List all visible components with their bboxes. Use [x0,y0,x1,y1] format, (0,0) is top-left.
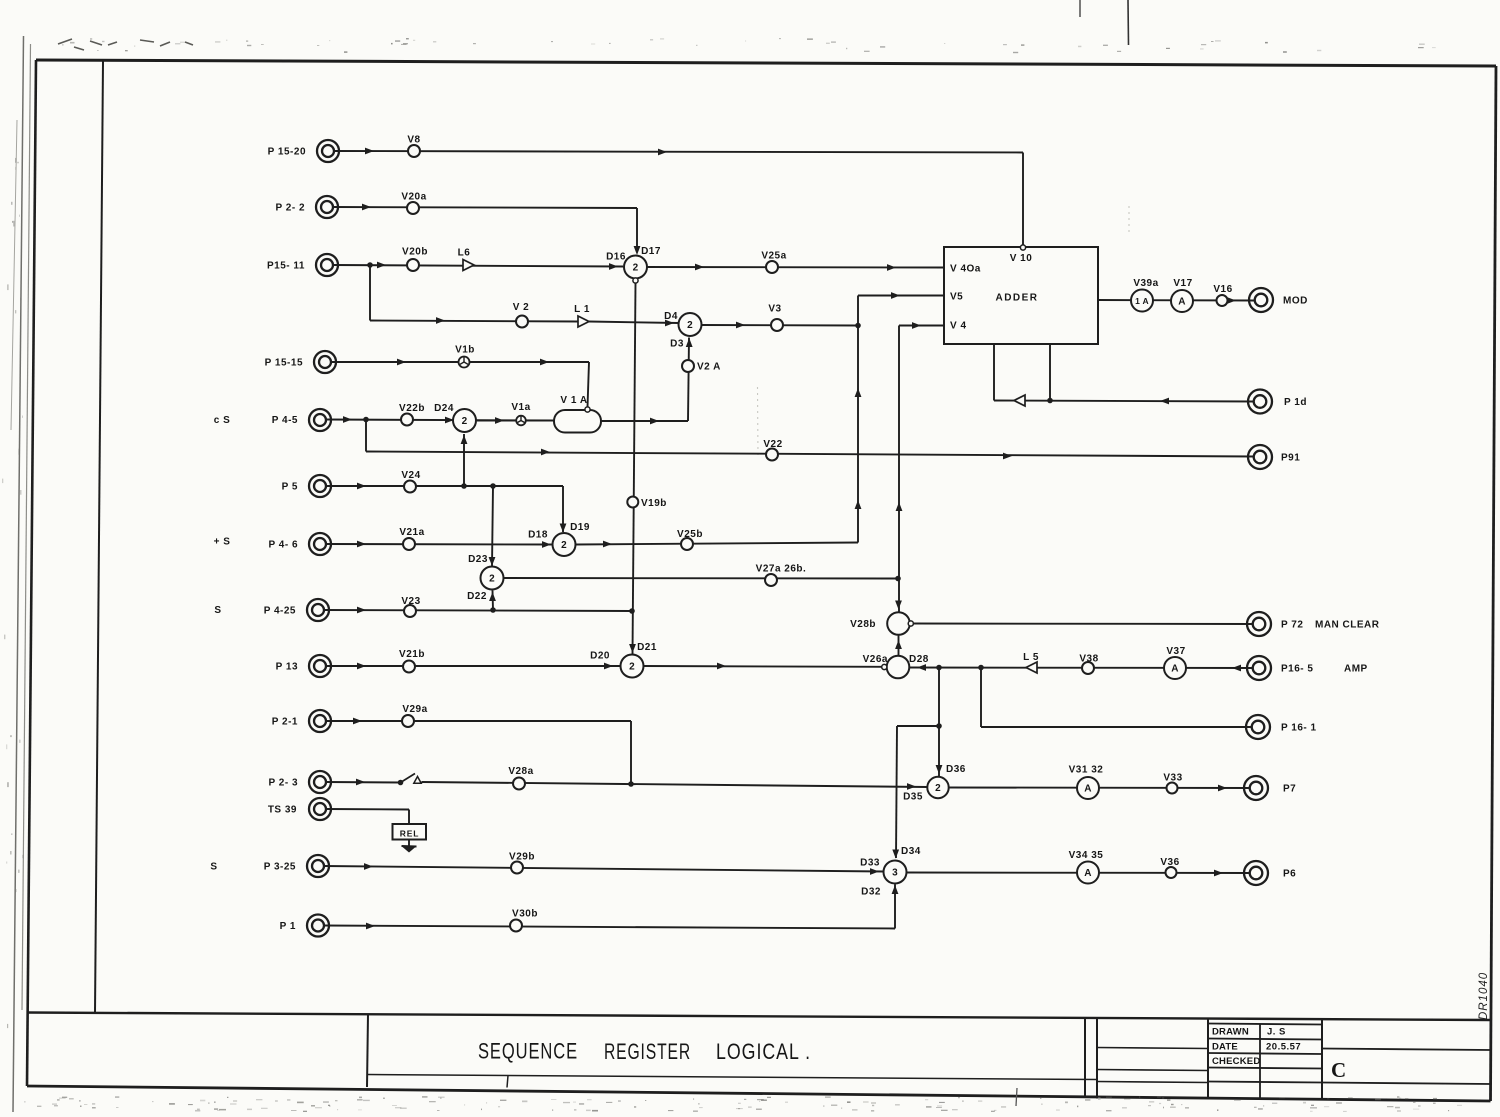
wire P16-1 row [980,668,982,728]
wire ADDER out [1098,299,1256,302]
svg-text:MAN CLEAR: MAN CLEAR [1315,620,1380,631]
arrow [855,500,862,509]
wire D16 output to ADDER [647,266,944,269]
svg-text:V21a: V21a [399,527,424,538]
arrow [343,416,352,423]
svg-text:P 5: P 5 [282,482,298,493]
valve V19b [627,497,638,508]
diode triangle [1014,395,1025,406]
valve V16 [1217,295,1228,306]
valve V2 [516,316,528,328]
svg-text:D24: D24 [434,403,454,414]
svg-text:V28b: V28b [850,619,876,630]
svg-text:D36: D36 [946,764,966,775]
svg-text:V16: V16 [1213,284,1232,295]
arrow [665,320,674,327]
wire D24 riser [463,434,465,486]
svg-text:D34: D34 [901,846,921,857]
terminal P4-5 [309,409,331,431]
arrow [1232,665,1241,672]
wire P13 row [326,665,621,667]
arrow D35 in [907,783,916,790]
wire P2-2 to D17 corner [333,207,637,208]
border inner margin line [95,62,103,1014]
svg-text:LOGICAL .: LOGICAL . [716,1039,811,1064]
arrow [357,541,366,548]
svg-text:D32: D32 [861,887,881,898]
svg-text:SEQUENCE: SEQUENCE [478,1039,578,1064]
wire P1 row [324,926,895,929]
svg-text:V34 35: V34 35 [1069,850,1104,861]
valve V25b [681,538,693,550]
wire D36 out [949,787,1251,790]
svg-text:P 15-15: P 15-15 [265,358,303,369]
wire D16 vertical [633,283,636,655]
terminal P2-2 [316,196,338,218]
wire P2-1 row [326,720,631,722]
valve V2A [682,360,694,372]
valve V22 [766,449,778,461]
wire D18 out to V5 [576,543,858,545]
svg-text:D22: D22 [467,591,487,602]
svg-text:TS 39: TS 39 [268,805,297,816]
relay REL box [393,824,427,840]
svg-text:P 4- 6: P 4- 6 [269,540,299,551]
svg-text:V2 A: V2 A [697,362,721,373]
svg-text:V 4Oa: V 4Oa [950,264,981,275]
arrow [736,322,745,329]
wire 3-circle out [907,872,1252,875]
adder D4 [679,313,702,336]
circle on V26a left [882,664,887,669]
amplifier L1 [578,316,589,327]
arrow D24 bottom [461,435,468,444]
svg-text:A: A [1084,868,1092,879]
arrow [695,264,704,271]
amplifier V31 32 [1077,777,1099,799]
scan tick marks top right [1079,0,1081,17]
adder D16 [624,256,647,279]
svg-text:DATE: DATE [1212,1042,1238,1053]
svg-text:L6: L6 [458,248,471,259]
svg-text:A: A [1171,664,1179,675]
delay V1A [554,410,601,433]
wire P15-15 to V1A [331,361,589,363]
svg-text:P16- 5: P16- 5 [1281,664,1313,675]
arrow [541,449,550,456]
junction [855,323,861,329]
ground [402,845,417,848]
svg-text:AMP: AMP [1344,664,1368,675]
terminal P15-15 [314,351,336,373]
wire TS39 to REL [326,808,409,811]
adder box [944,247,1098,344]
arrow [658,149,667,156]
amplifier V17 [1171,290,1193,312]
terminal TS39 [309,798,331,820]
wire P15-20 to V10 corner [334,151,1023,153]
svg-text:P 15-20: P 15-20 [268,147,306,158]
junction [936,665,942,671]
svg-text:D16: D16 [606,252,626,263]
wire P4-6 row [326,543,552,546]
svg-text:CHECKED: CHECKED [1212,1056,1260,1067]
circle on V28b right [908,621,913,626]
svg-text:D21: D21 [637,642,657,653]
valve V20a [407,202,419,214]
arrow [364,863,373,870]
terminal P2-1 [309,710,331,732]
svg-text:J. S: J. S [1267,1027,1286,1038]
svg-text:V31 32: V31 32 [1069,765,1104,776]
gate V26a [887,656,910,679]
svg-text:V38: V38 [1079,654,1098,665]
inhibit circle on D16 [633,278,638,283]
circle on V1A top [585,407,590,412]
arrow [357,607,366,614]
arrow D20 in [604,663,613,670]
svg-text:V 4: V 4 [950,321,967,332]
junction [367,262,373,268]
junction [490,483,496,489]
junction [936,723,942,729]
terminal P15-11 [316,254,338,276]
terminal P6 [1244,861,1268,885]
svg-text:D33: D33 [860,858,880,869]
junction [629,608,635,614]
valve V23 [404,605,416,617]
valve V22b [401,414,413,426]
svg-text:ADDER: ADDER [995,293,1038,304]
valve V21b [403,661,415,673]
svg-text:V36: V36 [1160,857,1179,868]
terminal P72 [1247,612,1271,636]
wire D24 to V1A [477,420,554,422]
svg-text:P 1: P 1 [280,921,296,932]
svg-text:D17: D17 [641,246,661,257]
arrow D34 into 3-circle [892,850,899,859]
svg-text:V 1 A: V 1 A [560,395,587,406]
arrow D23 into [489,557,496,566]
terminal P4-25 [307,599,329,621]
svg-text:V 10: V 10 [1010,253,1033,264]
amplifier V39a [1131,290,1153,312]
svg-text:P91: P91 [1281,453,1300,464]
svg-text:P7: P7 [1283,784,1296,795]
wire P15-11 to D16 [333,265,623,267]
title block grid [27,1013,1491,1021]
svg-text:D19: D19 [570,522,590,533]
svg-text:V23: V23 [401,596,420,607]
wire D36 riser [938,668,940,777]
wire P1d row [994,401,1255,402]
wire D23 out to V27a row [504,577,898,580]
arrow [603,541,612,548]
adder D24 [453,409,476,432]
terminal P1d [1248,390,1272,414]
terminal P1 [307,915,329,937]
wire D22 riser [492,591,495,611]
arrow [357,663,366,670]
wire P2-3 stub [326,781,401,784]
svg-text:L 5: L 5 [1023,652,1039,663]
svg-text:V8: V8 [407,135,420,146]
valve V29a [402,715,414,727]
svg-text:P 4-5: P 4-5 [272,415,298,426]
wire P16-5 row [910,667,1255,670]
svg-text:V20a: V20a [401,192,426,203]
gate V28b [887,612,910,635]
svg-text:P 3-25: P 3-25 [264,862,296,873]
arrow [362,204,371,211]
arrow [1214,870,1223,877]
valve V27a [765,574,777,586]
arrow D24 in [445,417,454,424]
valve V38 [1082,662,1094,674]
arrow [717,663,726,670]
arrow [353,718,362,725]
arrow [377,262,386,269]
arrow [895,640,902,649]
svg-text:A: A [1084,784,1092,795]
wire P4-25 row [324,610,632,611]
svg-text:D3: D3 [670,339,684,350]
svg-text:+ S: + S [214,537,231,548]
svg-text:P6: P6 [1283,869,1296,880]
arrow [1227,297,1236,304]
amplifier V34 35 [1077,862,1099,884]
junction [490,607,496,613]
arrow D36 into [936,765,943,774]
arrow [436,317,445,324]
svg-text:V37: V37 [1166,646,1185,657]
arrow [1218,785,1227,792]
adder D34-circle [884,861,907,884]
svg-text:V22b: V22b [399,403,425,414]
terminal P4-6 [309,533,331,555]
svg-text:V25a: V25a [761,251,786,262]
svg-text:D4: D4 [664,311,678,322]
svg-text:MOD: MOD [1283,296,1308,307]
svg-text:A: A [1178,297,1186,308]
adder D20 [621,655,644,678]
arrow [1160,398,1169,405]
svg-text:V22: V22 [763,439,782,450]
svg-text:S: S [210,862,217,873]
arrow V5 in [891,292,900,299]
terminal P5 [309,475,331,497]
svg-text:D35: D35 [903,792,923,803]
border frame outer [36,60,1496,66]
svg-text:V20b: V20b [402,247,428,258]
svg-text:V 2: V 2 [513,302,530,313]
amplifier L5 [1026,662,1037,673]
arrow V4 in [912,322,921,329]
svg-text:P 2- 2: P 2- 2 [276,203,306,214]
adder D36-circle [927,777,948,798]
terminal P91 [1248,445,1272,469]
arrow [896,502,903,511]
arrow [540,359,549,366]
junction [363,417,369,423]
arrow D17 into D16 [634,246,641,255]
wire P4-5 row [326,420,556,421]
svg-text:2: 2 [462,416,468,427]
svg-text:c S: c S [214,415,231,426]
svg-text:D23: D23 [468,554,488,565]
svg-text:P15- 11: P15- 11 [267,261,305,272]
valve V20b [407,259,419,271]
paper edge artifact left [13,36,24,1112]
arrow [887,264,896,271]
arrow D22 into [489,592,496,601]
scan crease dotted [757,387,760,458]
svg-text:V24: V24 [401,470,420,481]
arrow into V28b top [895,601,902,610]
valve V24 [404,481,416,493]
arrow D19 into D18 [560,524,567,533]
arrow [1003,453,1012,460]
svg-text:2: 2 [633,263,639,274]
arrow [650,418,659,425]
svg-text:V27a 26b.: V27a 26b. [756,564,807,575]
svg-text:P 13: P 13 [276,662,298,673]
terminal P16-1 [1246,715,1270,739]
svg-text:20.5.57: 20.5.57 [1266,1042,1301,1053]
svg-text:V1b: V1b [455,345,475,356]
pin V10 circle [1020,245,1025,250]
svg-text:2: 2 [561,540,567,551]
svg-text:V3: V3 [768,304,781,315]
arrow [357,483,366,490]
svg-text:V17: V17 [1173,278,1192,289]
svg-text:V28a: V28a [508,766,533,777]
valve V8 [408,145,420,157]
terminal P2-3 [309,771,331,793]
arrow [356,779,365,786]
arrow D32 into 3-circle [892,885,899,894]
valve V30b [510,920,522,932]
wire V26a-V28b link [898,635,900,656]
scan scribbles top left [58,39,193,50]
junction switch pivot [398,780,404,786]
svg-text:P 1d: P 1d [1284,397,1307,408]
svg-text:P 4-25: P 4-25 [264,606,296,617]
arrow D21 into D20 [629,644,636,653]
svg-text:V30b: V30b [512,909,538,920]
svg-text:V1a: V1a [511,402,530,413]
svg-text:2: 2 [935,783,941,794]
arrow [609,263,618,270]
svg-text:V33: V33 [1163,773,1182,784]
valve V1a [516,416,526,426]
svg-text:V39a: V39a [1133,278,1158,289]
svg-text:S: S [214,605,221,616]
arrow [366,923,375,930]
switch blade [401,774,416,783]
svg-text:V5: V5 [950,292,963,303]
svg-text:D28: D28 [909,654,929,665]
svg-text:V19b: V19b [641,498,667,509]
terminal P13 [309,655,331,677]
valve V3 [771,319,783,331]
terminal P15-20 [317,140,339,162]
amplifier L6 [463,260,474,271]
wire P5 row [326,485,563,487]
svg-text:V21b: V21b [399,649,425,660]
wire D4 out [702,324,859,327]
valve V36 [1166,867,1177,878]
wire D20 out [644,665,885,668]
arrow D3 into D4 [686,338,693,347]
svg-text:2: 2 [687,320,693,331]
arrow D18 in [542,541,551,548]
wire D23 riser [492,486,493,566]
svg-text:V29a: V29a [402,704,427,715]
wire V28a row to D36 [422,782,928,787]
wire P4-5 branch to P91 [365,420,367,452]
valve V33 [1167,783,1178,794]
svg-text:DRAWN: DRAWN [1212,1027,1249,1038]
svg-text:D18: D18 [528,530,548,541]
valve V25a [766,261,778,273]
svg-text:C: C [1331,1058,1347,1082]
arrow [855,388,862,397]
valve V29b [511,862,523,874]
svg-text:DR1040: DR1040 [1478,972,1490,1020]
junction [895,576,901,582]
arrow [397,359,406,366]
svg-text:P 2-1: P 2-1 [272,717,298,728]
valve V1b [459,357,470,368]
terminal P7 [1244,776,1268,800]
wire V10 drop [1022,153,1024,246]
svg-text:P 2- 3: P 2- 3 [269,778,299,789]
svg-text:L 1: L 1 [574,304,590,315]
terminal MOD [1249,288,1273,312]
wire branch P15-11 to D4 [369,265,371,321]
wire riser V4 [898,326,900,613]
switch contact triangle [414,777,421,784]
adder D23 [481,567,504,590]
svg-text:REL: REL [400,829,419,839]
svg-text:2: 2 [629,662,635,673]
svg-text:D20: D20 [590,651,610,662]
valve V28a [513,778,525,790]
svg-text:V29b: V29b [509,852,535,863]
svg-text:REGISTER: REGISTER [604,1039,691,1064]
svg-text:V26a: V26a [863,654,888,665]
terminal P16-5 [1247,656,1271,680]
svg-text:P 16- 1: P 16- 1 [1281,723,1317,734]
svg-text:P 72: P 72 [1281,620,1303,631]
wire jog to D34 riser [897,725,939,727]
svg-text:3: 3 [892,868,898,879]
amplifier V37 [1164,657,1186,679]
wire P72 row [913,623,1254,626]
arrow [495,417,504,424]
svg-text:V25b: V25b [677,529,703,540]
svg-text:1 A: 1 A [1135,296,1149,306]
junction [1047,398,1053,404]
arrow D33 in [870,868,879,875]
svg-text:2: 2 [489,574,495,585]
junction [461,483,467,489]
terminal P3-25 [307,855,329,877]
wire V1A out to V2A riser [601,420,688,422]
adder D18 [553,533,576,556]
wire P3-25 row [324,866,884,872]
